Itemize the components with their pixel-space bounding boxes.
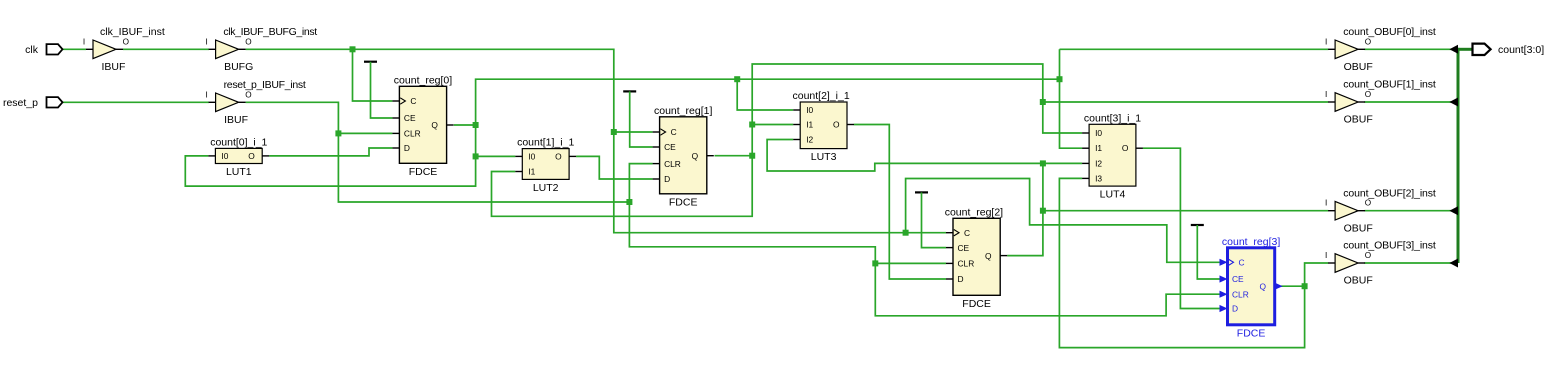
junction count[2] at OBUF2 branch	[1040, 208, 1046, 214]
svg-text:O: O	[245, 37, 251, 46]
wire count[0] to OBUF0 input	[1060, 48, 1329, 50]
output port count[3:0]	[1473, 44, 1545, 56]
svg-text:OBUF: OBUF	[1344, 222, 1373, 234]
LUT count[3]_i_1	[1082, 112, 1143, 200]
svg-text:IBUF: IBUF	[224, 114, 248, 126]
LUT count[2]_i_1	[792, 90, 854, 163]
svg-text:I1: I1	[806, 120, 813, 130]
svg-text:reset_p_IBUF_inst: reset_p_IBUF_inst	[224, 79, 306, 91]
svg-text:count[1]_i_1: count[1]_i_1	[517, 137, 574, 149]
wire clk branch to count_reg[3] C	[906, 179, 1220, 263]
svg-text:O: O	[245, 90, 251, 99]
junction count[1] at LUT3 I1	[749, 122, 755, 128]
svg-text:O: O	[248, 151, 255, 161]
wire net count[0]: Q0 to junction	[454, 124, 476, 126]
LUT count[1]_i_1	[515, 137, 576, 194]
svg-text:CE: CE	[404, 113, 416, 123]
buffer OBUF count_OBUF[3]_inst	[1325, 240, 1436, 287]
wire clk branch to count_reg[0] C	[353, 49, 393, 101]
svg-text:clk: clk	[25, 44, 39, 56]
svg-text:LUT2: LUT2	[533, 182, 559, 194]
buffer OBUF count_OBUF[0]_inst	[1325, 26, 1436, 73]
wire count[1] branch to LUT3 I1	[752, 124, 793, 126]
wire count[2] branch to LUT4 I2	[1043, 162, 1082, 164]
svg-text:LUT4: LUT4	[1100, 189, 1126, 201]
svg-text:clk_IBUF_inst: clk_IBUF_inst	[100, 26, 165, 38]
wire net count[2]_i_1_n_0: LUT3 O to count_reg[2] D	[854, 125, 946, 280]
power const1 VCC for count_reg[2] CE	[915, 192, 946, 247]
input port reset_p	[3, 97, 63, 109]
junction count[0] at east riser	[1057, 76, 1063, 82]
svg-text:I2: I2	[1095, 158, 1102, 168]
svg-text:FDCE: FDCE	[962, 298, 991, 310]
svg-text:clk_IBUF_BUFG_inst: clk_IBUF_BUFG_inst	[223, 26, 317, 38]
power const1 VCC for count_reg[1] CE	[623, 91, 652, 147]
wire count_OBUF[1] to bus	[1364, 101, 1452, 103]
svg-text:count_reg[0]: count_reg[0]	[394, 74, 452, 86]
svg-text:OBUF: OBUF	[1344, 61, 1373, 73]
wire bus count_OBUF[3:0] vertical	[1457, 48, 1460, 263]
wire reset trunk south-east to CLR3	[629, 202, 1220, 316]
wire count[2] branch to OBUF2	[1043, 210, 1329, 212]
svg-text:Q: Q	[985, 251, 992, 261]
buffer OBUF count_OBUF[2]_inst	[1325, 187, 1436, 234]
svg-text:count_OBUF[2]_inst: count_OBUF[2]_inst	[1343, 187, 1436, 199]
svg-text:I0: I0	[1095, 128, 1102, 138]
wire net count[1]_i_1_n_0: LUT2 O to count_reg[1] D	[576, 156, 653, 179]
svg-text:C: C	[671, 127, 677, 137]
svg-text:I1: I1	[1095, 143, 1102, 153]
svg-text:FDCE: FDCE	[669, 196, 698, 208]
svg-text:I0: I0	[528, 151, 535, 161]
svg-text:FDCE: FDCE	[1237, 327, 1266, 339]
svg-text:I0: I0	[221, 151, 228, 161]
buffer IBUF clk_IBUF_inst	[83, 26, 165, 73]
wire net clk: port to IBUF input	[63, 48, 86, 50]
svg-text:O: O	[1365, 199, 1371, 208]
power const1 VCC for count_reg[3] CE	[1191, 225, 1220, 279]
wire bus to output port count[3:0]	[1458, 48, 1473, 51]
svg-text:CLR: CLR	[664, 159, 681, 169]
wire count[0] branch to LUT2 I0	[476, 155, 516, 157]
svg-text:I2: I2	[806, 135, 813, 145]
svg-text:I: I	[83, 37, 85, 46]
svg-text:O: O	[1365, 251, 1371, 260]
svg-text:CLR: CLR	[404, 129, 421, 139]
svg-text:count[2]_i_1: count[2]_i_1	[792, 90, 849, 102]
svg-text:I1: I1	[528, 167, 535, 177]
wire net reset_p_IBUF trunk	[246, 102, 630, 202]
wire net count[2]: Q2 riser	[1007, 163, 1043, 255]
wire count[0] north riser and east trunk	[476, 79, 1060, 125]
svg-text:I3: I3	[1095, 173, 1102, 183]
svg-text:count_OBUF[1]_inst: count_OBUF[1]_inst	[1343, 79, 1436, 91]
bus entry arrow count[2]	[1449, 206, 1458, 215]
svg-text:O: O	[833, 120, 840, 130]
wire net count[3]_i_1_n_0: LUT4 O to count_reg[3] D	[1143, 148, 1220, 308]
buffer IBUF reset_p_IBUF_inst	[205, 79, 305, 126]
wire count[1] feedback to LUT2 I1	[492, 156, 753, 217]
svg-text:C: C	[410, 96, 416, 106]
junction reset at CLR1	[626, 199, 632, 205]
svg-text:count_reg[2]: count_reg[2]	[945, 206, 1003, 218]
input port clk	[25, 44, 62, 56]
wire count_OBUF[0] to bus	[1364, 48, 1452, 50]
svg-text:D: D	[1232, 304, 1238, 314]
wire net clk_IBUF_BUFG trunk: BUFG output east then south to C2	[246, 49, 946, 232]
svg-text:OBUF: OBUF	[1344, 275, 1373, 287]
wire reset branch to count_reg[2] CLR	[875, 262, 946, 264]
power const1 VCC for count_reg[0] CE	[364, 62, 392, 118]
svg-text:Q: Q	[1260, 281, 1267, 291]
svg-text:O: O	[1122, 143, 1129, 153]
wire net count[3]: Q3 to junction	[1281, 285, 1305, 287]
svg-text:I: I	[1325, 37, 1327, 46]
bus entry arrow count[3]	[1449, 259, 1458, 268]
junction clk at C0 branch	[350, 46, 356, 52]
svg-text:I: I	[205, 90, 207, 99]
wire count[2] feedback to LUT3 I2	[767, 140, 1043, 172]
flip-flop count_reg[0]	[392, 74, 453, 178]
LUT count[0]_i_1	[208, 136, 269, 178]
wire net count[1]: Q1 to junction	[715, 155, 753, 157]
junction reset at CLR0	[335, 130, 341, 136]
svg-text:count[0]_i_1: count[0]_i_1	[210, 136, 267, 148]
flip-flop selected count_reg[3]	[1220, 236, 1283, 339]
svg-text:I: I	[1325, 90, 1327, 99]
svg-text:O: O	[1365, 90, 1371, 99]
wire count[0] south riser feedback to LUT1 I0	[185, 125, 475, 186]
junction count[0] at LUT2 I0	[473, 153, 479, 159]
svg-text:count[3:0]: count[3:0]	[1498, 44, 1544, 56]
wire count[1] branch to OBUF1	[1043, 101, 1329, 103]
wire net count[0]_i_1_n_0: LUT1 O to count_reg[0] D	[269, 148, 392, 156]
svg-text:D: D	[958, 274, 964, 284]
wire reset branch to count_reg[1] CLR	[629, 164, 652, 202]
svg-text:BUFG: BUFG	[224, 61, 253, 73]
svg-text:FDCE: FDCE	[409, 166, 438, 178]
wire count[0] branch to LUT3 I0	[737, 79, 793, 110]
wire count_OBUF[3] to bus	[1364, 262, 1452, 264]
wire count[3] feedback to LUT4 I3	[1059, 178, 1304, 347]
svg-text:LUT1: LUT1	[226, 166, 252, 178]
junction clk at C2 branch	[903, 230, 909, 236]
svg-text:reset_p: reset_p	[3, 97, 38, 109]
svg-text:LUT3: LUT3	[811, 151, 837, 163]
wire count[1] north riser and east trunk to LUT4 I0	[752, 64, 1082, 156]
flip-flop count_reg[1]	[653, 105, 714, 209]
wire net reset_p: port to IBUF input	[63, 101, 209, 103]
svg-text:C: C	[1239, 258, 1245, 268]
wire net clk_IBUF: IBUF output to BUFG input	[123, 48, 209, 50]
svg-text:O: O	[555, 151, 562, 161]
bus entry arrow count[0]	[1449, 45, 1458, 54]
svg-text:CE: CE	[664, 142, 676, 152]
svg-text:CE: CE	[958, 243, 970, 253]
svg-text:D: D	[664, 174, 670, 184]
svg-text:Q: Q	[692, 151, 699, 161]
flip-flop count_reg[2]	[945, 206, 1007, 309]
junction count[2] at LUT4 I2	[1040, 160, 1046, 166]
wire count_OBUF[2] to bus	[1364, 210, 1452, 212]
bus entry arrow count[1]	[1449, 98, 1458, 107]
buffer BUFG clk_IBUF_BUFG_inst	[205, 26, 317, 73]
wire reset branch to count_reg[0] CLR	[338, 132, 392, 134]
svg-text:O: O	[123, 37, 129, 46]
svg-text:CLR: CLR	[1232, 289, 1249, 299]
svg-text:Q: Q	[431, 120, 438, 130]
junction count[1] at OBUF1 branch	[1040, 99, 1046, 105]
junction count[0] at Q0	[473, 122, 479, 128]
svg-text:count_OBUF[0]_inst: count_OBUF[0]_inst	[1343, 26, 1436, 38]
junction count[0] at LUT3 I0 drop	[734, 76, 740, 82]
junction count[1] at Q1	[749, 153, 755, 159]
svg-text:CE: CE	[1232, 274, 1244, 284]
junction reset at CLR2	[872, 260, 878, 266]
svg-text:count[3]_i_1: count[3]_i_1	[1084, 112, 1141, 124]
svg-text:IBUF: IBUF	[102, 61, 126, 73]
svg-text:count_OBUF[3]_inst: count_OBUF[3]_inst	[1343, 240, 1436, 252]
svg-text:I0: I0	[806, 105, 813, 115]
junction clk at C1 branch	[611, 129, 617, 135]
wire count[3] branch to OBUF3	[1305, 263, 1329, 286]
junction count[3] at Q3	[1302, 283, 1308, 289]
svg-text:C: C	[964, 228, 970, 238]
svg-text:I: I	[1325, 251, 1327, 260]
svg-text:O: O	[1365, 37, 1371, 46]
buffer OBUF count_OBUF[1]_inst	[1325, 79, 1436, 126]
wire count[0] riser to OBUF0 and drop to LUT4 I1	[1060, 49, 1083, 148]
svg-text:I: I	[1325, 199, 1327, 208]
svg-text:count_reg[1]: count_reg[1]	[654, 105, 712, 117]
svg-text:count_reg[3]: count_reg[3]	[1222, 236, 1280, 248]
svg-text:OBUF: OBUF	[1344, 114, 1373, 126]
svg-text:CLR: CLR	[958, 259, 975, 269]
svg-text:I: I	[205, 37, 207, 46]
svg-text:D: D	[404, 143, 410, 153]
wire clk branch to count_reg[1] C	[614, 131, 653, 133]
